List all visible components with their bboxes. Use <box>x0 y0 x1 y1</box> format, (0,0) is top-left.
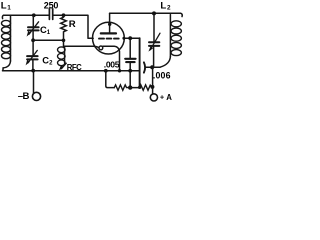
svg-text:250: 250 <box>44 1 59 11</box>
label -B <box>18 91 30 102</box>
svg-text:.005: .005 <box>104 60 120 70</box>
junction rheostat wire <box>128 85 132 89</box>
label L1 <box>1 1 12 12</box>
wire .005 node down to rheostat row <box>129 71 131 88</box>
wire top grid lead <box>10 15 93 38</box>
wire plate to L2 <box>110 12 167 14</box>
tube V1 envelope <box>93 22 125 54</box>
label C1 <box>40 24 51 36</box>
wire -B drop <box>33 71 35 94</box>
svg-text:R: R <box>69 19 76 30</box>
junction top wire / C1 <box>32 13 36 17</box>
wire right vertical (cap left plate) <box>139 38 141 87</box>
capacitor .005 <box>125 38 135 71</box>
svg-text:2: 2 <box>49 61 53 67</box>
inductor L1 <box>2 15 11 71</box>
wire bottom rail <box>3 70 140 72</box>
resistor rheostat 1 <box>114 85 130 90</box>
label L2 <box>160 1 171 12</box>
svg-text:.006: .006 <box>153 70 171 80</box>
svg-text:L: L <box>160 1 166 12</box>
junction rheostat 2 / right vertical <box>138 86 141 89</box>
junction .005 branch <box>128 36 132 40</box>
variable capacitor (plate tank) <box>148 13 160 67</box>
junction plate wire / variable cap <box>152 11 156 15</box>
svg-text:–B: –B <box>18 91 30 102</box>
capacitor .006 (curved plate) <box>144 62 145 72</box>
capacitor C1 (variable) <box>27 15 39 40</box>
tube plate <box>101 32 116 34</box>
terminal +A <box>150 94 157 101</box>
svg-text:A: A <box>166 93 172 102</box>
resistor rheostat 2 <box>140 85 153 90</box>
tube filament <box>99 46 120 71</box>
inductor L2 <box>160 13 182 67</box>
label +A <box>160 93 172 103</box>
wire branch to rheostats <box>106 71 115 88</box>
svg-text:2: 2 <box>167 4 171 11</box>
junction top wire / R <box>62 13 66 17</box>
wire midpoint to R column <box>33 39 63 41</box>
junction wire / R column <box>62 39 66 43</box>
junction bottom / .005 <box>128 69 132 73</box>
junction bottom / C2 <box>31 69 35 73</box>
junction C1/C2 midpoint <box>31 38 35 42</box>
junction node .006/+A <box>150 65 154 69</box>
resistor R <box>61 15 67 46</box>
label .005 <box>104 60 120 70</box>
svg-text:1: 1 <box>7 4 11 11</box>
choke RFC <box>58 47 67 71</box>
terminal -B <box>32 92 40 100</box>
label R <box>69 19 76 30</box>
tube grid (dashed) <box>99 38 119 40</box>
label .006 <box>153 70 171 80</box>
svg-text:L: L <box>1 1 7 12</box>
wire +A drop <box>152 67 154 94</box>
junction bottom / filament <box>118 69 121 72</box>
label 250 <box>44 1 59 11</box>
svg-text:+: + <box>160 93 165 102</box>
label RFC <box>67 63 82 72</box>
capacitor C2 (variable) <box>26 40 38 71</box>
svg-text:1: 1 <box>47 30 51 36</box>
label C2 <box>42 55 53 67</box>
wire tube right side <box>124 37 140 39</box>
junction bottom / rheostat branch <box>104 69 108 73</box>
wire filament lead to tube <box>64 46 99 48</box>
capacitor 250 <box>49 9 52 20</box>
